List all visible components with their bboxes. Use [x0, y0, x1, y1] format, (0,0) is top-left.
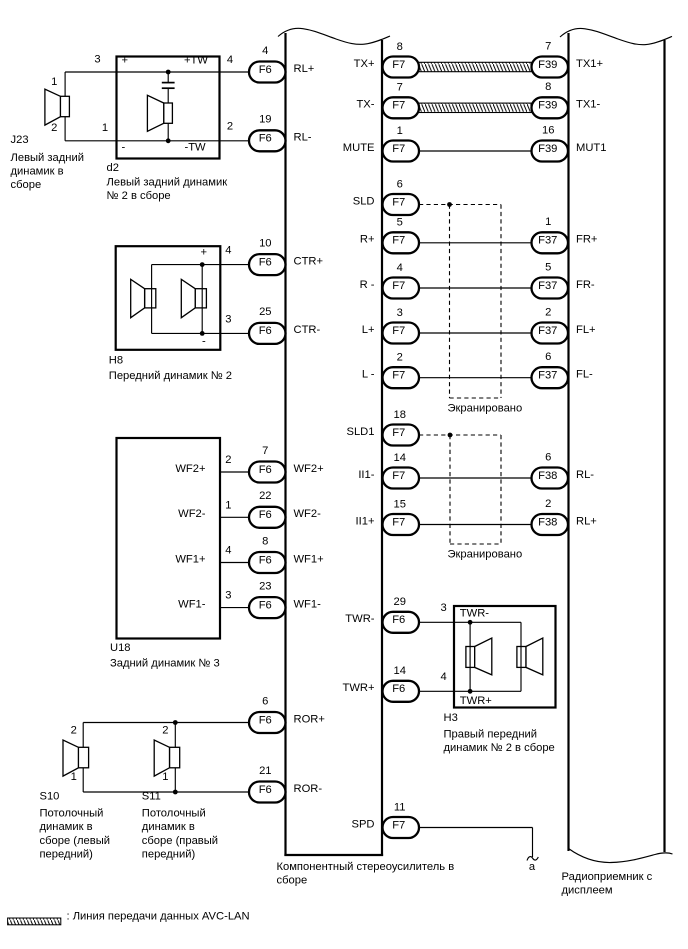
svg-text:Левый задний: Левый задний: [11, 152, 84, 164]
svg-text:2: 2: [397, 352, 403, 364]
svg-text:1: 1: [397, 125, 403, 137]
svg-text:7: 7: [545, 40, 551, 52]
svg-text:ROR-: ROR-: [294, 783, 323, 795]
svg-text:F37: F37: [538, 325, 557, 337]
svg-text:F7: F7: [392, 143, 405, 155]
svg-text:F7: F7: [392, 516, 405, 528]
svg-text:RL-: RL-: [576, 469, 594, 481]
svg-text:5: 5: [397, 217, 403, 229]
svg-text:WF1+: WF1+: [175, 553, 205, 565]
svg-text:+TW: +TW: [184, 54, 208, 66]
svg-text:F39: F39: [538, 100, 557, 112]
svg-text:FL+: FL+: [576, 324, 596, 336]
svg-text:2: 2: [71, 725, 77, 737]
svg-text:: Линия передачи данных AVC-LA: : Линия передачи данных AVC-LAN: [67, 911, 250, 923]
svg-text:F7: F7: [392, 235, 405, 247]
svg-text:F7: F7: [392, 819, 405, 831]
svg-text:8: 8: [262, 535, 268, 547]
svg-text:18: 18: [393, 409, 405, 421]
svg-text:d2: d2: [107, 162, 119, 174]
svg-text:F6: F6: [259, 509, 272, 521]
svg-text:2: 2: [225, 454, 231, 466]
svg-text:F6: F6: [259, 325, 272, 337]
svg-text:6: 6: [262, 695, 268, 707]
svg-text:S10: S10: [40, 791, 60, 803]
svg-text:№ 2 в сборе: № 2 в сборе: [107, 190, 171, 202]
svg-text:WF1-: WF1-: [294, 598, 322, 610]
svg-text:7: 7: [262, 445, 268, 457]
svg-text:3: 3: [225, 314, 231, 326]
svg-text:2: 2: [162, 725, 168, 737]
svg-text:SLD: SLD: [353, 195, 375, 207]
svg-text:F6: F6: [392, 683, 405, 695]
svg-text:CTR-: CTR-: [294, 324, 321, 336]
svg-text:F37: F37: [538, 235, 557, 247]
svg-text:2: 2: [227, 121, 233, 133]
svg-text:динамик в: динамик в: [142, 821, 195, 833]
svg-text:F6: F6: [259, 464, 272, 476]
svg-text:H8: H8: [109, 355, 123, 367]
svg-text:2: 2: [51, 122, 57, 134]
svg-text:4: 4: [225, 245, 231, 257]
svg-text:3: 3: [440, 602, 446, 614]
svg-text:5: 5: [545, 261, 551, 273]
svg-text:19: 19: [259, 114, 271, 126]
svg-text:1: 1: [51, 76, 57, 88]
svg-text:F7: F7: [392, 325, 405, 337]
svg-text:WF2-: WF2-: [178, 508, 206, 520]
svg-text:F6: F6: [259, 133, 272, 145]
svg-text:Задний динамик № 3: Задний динамик № 3: [110, 658, 220, 670]
svg-text:F7: F7: [392, 470, 405, 482]
svg-text:F7: F7: [392, 280, 405, 292]
svg-text:Экранировано: Экранировано: [448, 549, 523, 561]
svg-text:TX1-: TX1-: [576, 99, 601, 111]
svg-text:передний): передний): [142, 848, 196, 860]
svg-text:4: 4: [225, 545, 231, 557]
svg-text:Компонентный стереоусилитель в: Компонентный стереоусилитель в: [277, 861, 455, 873]
svg-text:TX+: TX+: [354, 58, 375, 70]
svg-text:Потолочный: Потолочный: [142, 808, 206, 820]
svg-text:H3: H3: [444, 712, 458, 724]
svg-text:25: 25: [259, 306, 271, 318]
svg-text:F7: F7: [392, 370, 405, 382]
svg-text:Правый передний: Правый передний: [444, 728, 538, 740]
svg-text:F38: F38: [538, 516, 557, 528]
svg-text:-: -: [202, 335, 206, 347]
svg-text:F38: F38: [538, 470, 557, 482]
svg-text:1: 1: [102, 122, 108, 134]
svg-text:6: 6: [545, 351, 551, 363]
svg-text:дисплеем: дисплеем: [562, 885, 613, 897]
svg-text:RL+: RL+: [576, 515, 597, 527]
svg-text:+: +: [201, 246, 208, 258]
svg-text:U18: U18: [110, 642, 131, 654]
svg-text:16: 16: [542, 124, 554, 136]
svg-text:F6: F6: [392, 614, 405, 626]
svg-text:4: 4: [262, 45, 268, 57]
svg-text:1: 1: [162, 771, 168, 783]
svg-text:WF1-: WF1-: [178, 598, 206, 610]
svg-text:F39: F39: [538, 143, 557, 155]
svg-text:F37: F37: [538, 280, 557, 292]
svg-text:динамик в: динамик в: [11, 166, 64, 178]
svg-text:TWR+: TWR+: [460, 695, 492, 707]
svg-text:a: a: [529, 861, 536, 873]
svg-text:4: 4: [227, 54, 233, 66]
svg-text:29: 29: [393, 596, 405, 608]
svg-text:4: 4: [440, 671, 446, 683]
svg-text:F6: F6: [259, 784, 272, 796]
svg-text:2: 2: [545, 306, 551, 318]
svg-text:ROR+: ROR+: [294, 713, 325, 725]
svg-text:TWR+: TWR+: [342, 682, 374, 694]
svg-text:F7: F7: [392, 196, 405, 208]
svg-text:Потолочный: Потолочный: [40, 808, 104, 820]
svg-text:3: 3: [94, 54, 100, 66]
svg-text:F6: F6: [259, 256, 272, 268]
svg-text:II1-: II1-: [358, 469, 374, 481]
svg-text:F7: F7: [392, 427, 405, 439]
svg-text:-: -: [122, 142, 126, 154]
svg-text:1: 1: [225, 499, 231, 511]
svg-text:11: 11: [394, 801, 406, 813]
svg-text:передний): передний): [40, 848, 94, 860]
svg-text:F6: F6: [259, 599, 272, 611]
svg-text:сборе (правый: сборе (правый: [142, 835, 218, 847]
svg-text:8: 8: [545, 81, 551, 93]
svg-text:L+: L+: [362, 324, 375, 336]
svg-text:-TW: -TW: [185, 142, 207, 154]
svg-text:R -: R -: [360, 279, 375, 291]
svg-text:CTR+: CTR+: [294, 255, 324, 267]
svg-text:J23: J23: [11, 134, 29, 146]
svg-text:динамик № 2 в сборе: динамик № 2 в сборе: [444, 742, 555, 754]
svg-text:TWR-: TWR-: [345, 613, 374, 625]
svg-text:TX-: TX-: [356, 99, 374, 111]
svg-text:6: 6: [397, 178, 403, 190]
svg-text:F6: F6: [259, 714, 272, 726]
svg-text:1: 1: [545, 216, 551, 228]
svg-text:сборе: сборе: [277, 875, 308, 887]
svg-text:WF1+: WF1+: [294, 553, 324, 565]
svg-text:6: 6: [545, 451, 551, 463]
svg-text:8: 8: [397, 41, 403, 53]
svg-text:F7: F7: [392, 100, 405, 112]
svg-text:MUT1: MUT1: [576, 142, 606, 154]
svg-text:FR+: FR+: [576, 234, 597, 246]
svg-text:динамик в: динамик в: [40, 821, 93, 833]
svg-text:WF2+: WF2+: [294, 463, 324, 475]
svg-text:RL+: RL+: [294, 63, 315, 75]
svg-text:TX1+: TX1+: [576, 58, 603, 70]
svg-text:F7: F7: [392, 59, 405, 71]
svg-text:14: 14: [393, 665, 405, 677]
svg-text:14: 14: [393, 452, 405, 464]
svg-text:TWR-: TWR-: [460, 608, 489, 620]
svg-text:Передний динамик № 2: Передний динамик № 2: [109, 370, 232, 382]
svg-text:RL-: RL-: [294, 132, 312, 144]
svg-text:FL-: FL-: [576, 369, 593, 381]
svg-text:F6: F6: [259, 554, 272, 566]
svg-text:2: 2: [545, 498, 551, 510]
svg-text:S11: S11: [142, 791, 161, 803]
svg-text:SLD1: SLD1: [347, 426, 375, 438]
svg-text:WF2-: WF2-: [294, 508, 322, 520]
svg-text:MUTE: MUTE: [343, 142, 375, 154]
svg-text:21: 21: [259, 765, 271, 777]
svg-text:L -: L -: [362, 369, 375, 381]
svg-text:R+: R+: [360, 234, 375, 246]
svg-text:3: 3: [397, 307, 403, 319]
svg-text:сборе: сборе: [11, 179, 42, 191]
svg-text:4: 4: [397, 262, 403, 274]
svg-text:7: 7: [397, 82, 403, 94]
svg-text:WF2+: WF2+: [175, 463, 205, 475]
svg-text:15: 15: [393, 498, 405, 510]
svg-text:23: 23: [259, 580, 271, 592]
svg-text:1: 1: [71, 771, 77, 783]
svg-text:SPD: SPD: [351, 818, 374, 830]
svg-text:сборе (левый: сборе (левый: [40, 835, 111, 847]
svg-text:F6: F6: [259, 64, 272, 76]
svg-text:22: 22: [259, 490, 271, 502]
svg-text:Экранировано: Экранировано: [448, 403, 523, 415]
svg-text:Левый задний динамик: Левый задний динамик: [107, 176, 228, 188]
svg-text:10: 10: [259, 237, 271, 249]
svg-text:F39: F39: [538, 59, 557, 71]
svg-text:+: +: [122, 54, 129, 66]
svg-text:II1+: II1+: [356, 515, 375, 527]
svg-text:3: 3: [225, 590, 231, 602]
svg-text:F37: F37: [538, 370, 557, 382]
svg-text:Радиоприемник с: Радиоприемник с: [562, 871, 653, 883]
svg-text:FR-: FR-: [576, 279, 595, 291]
